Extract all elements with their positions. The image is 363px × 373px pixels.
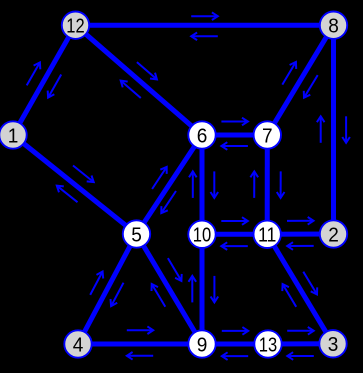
svg-text:1: 1 — [8, 124, 19, 147]
edge 13-3 — [268, 341, 333, 346]
arrow 12-&gt;1 — [48, 75, 62, 98]
edge 10-9 — [200, 234, 205, 344]
svg-text:8: 8 — [328, 15, 339, 38]
node 2 — [320, 220, 347, 247]
arrow 8-&gt;12 — [191, 33, 218, 41]
svg-text:4: 4 — [73, 333, 84, 356]
arrow 6-&gt;10 — [211, 171, 219, 198]
node 8 — [320, 12, 347, 39]
arrow 13-&gt;9 — [222, 352, 248, 360]
node 11 — [254, 221, 281, 248]
edge 9-13 — [202, 342, 268, 347]
arrow 2-&gt;8 — [317, 116, 325, 143]
edge 10-11 — [202, 232, 267, 237]
arrow 10-&gt;9 — [211, 276, 219, 303]
arrow 5-&gt;9 — [168, 258, 182, 281]
svg-text:5: 5 — [131, 223, 142, 246]
edge 7-11 — [265, 135, 270, 234]
node 4 — [64, 330, 91, 357]
edge 8-2 — [331, 25, 336, 234]
node 1 — [0, 121, 27, 148]
edge 1-5 — [13, 135, 137, 234]
edge 12-8 — [76, 23, 334, 28]
node 7 — [254, 121, 281, 148]
arrow 9-&gt;13 — [222, 327, 248, 335]
arrow 6-&gt;7 — [221, 118, 248, 126]
edge 12-1 — [13, 25, 76, 135]
arrow 6-&gt;5 — [161, 191, 176, 213]
arrow 5-&gt;1 — [57, 186, 78, 203]
edge 6-7 — [202, 133, 267, 138]
svg-text:12: 12 — [66, 15, 84, 38]
edge 5-9 — [137, 234, 203, 344]
svg-text:7: 7 — [262, 124, 273, 147]
svg-text:11: 11 — [258, 224, 276, 247]
node 12 — [62, 12, 89, 39]
node 13 — [254, 330, 281, 357]
edge 11-2 — [267, 232, 333, 237]
node 10 — [188, 221, 215, 248]
svg-text:10: 10 — [193, 224, 211, 247]
arrow 12-&gt;8 — [191, 12, 218, 20]
arrow 9-&gt;5 — [152, 284, 166, 307]
svg-text:3: 3 — [328, 333, 339, 356]
svg-text:9: 9 — [197, 333, 208, 356]
svg-text:13: 13 — [259, 333, 277, 356]
arrow 11-&gt;2 — [287, 217, 314, 225]
arrow 3-&gt;11 — [282, 284, 296, 307]
edge 12-6 — [76, 25, 203, 135]
arrow 2-&gt;11 — [287, 242, 314, 250]
svg-text:2: 2 — [328, 223, 339, 246]
arrow 10-&gt;11 — [221, 217, 248, 225]
node 5 — [123, 220, 150, 247]
arrow 9-&gt;10 — [189, 276, 197, 303]
arrow 11-&gt;3 — [303, 272, 317, 295]
arrow 7-&gt;8 — [282, 62, 296, 85]
arrow 7-&gt;11 — [277, 171, 285, 198]
edge 6-5 — [137, 135, 203, 234]
arrow 1-&gt;5 — [73, 166, 94, 183]
edge 5-4 — [78, 234, 137, 344]
arrow 11-&gt;7 — [250, 171, 258, 198]
arrow 4-&gt;9 — [127, 326, 153, 334]
node 6 — [188, 121, 215, 148]
arrow 8-&gt;2 — [342, 116, 350, 143]
edge 11-3 — [267, 234, 333, 343]
arrow 7-&gt;6 — [221, 142, 248, 150]
edge 4-9 — [78, 342, 202, 347]
arrow 10-&gt;6 — [189, 171, 197, 198]
arrow 4-&gt;5 — [90, 272, 103, 295]
arrow 9-&gt;4 — [127, 352, 153, 360]
arrow 6-&gt;12 — [121, 81, 141, 98]
node 3 — [319, 330, 346, 357]
arrow 5-&gt;4 — [111, 283, 124, 306]
edge 6-10 — [200, 135, 205, 234]
arrow 3-&gt;13 — [287, 352, 314, 360]
arrow 13-&gt;3 — [287, 327, 314, 335]
arrow 8-&gt;7 — [304, 75, 318, 98]
arrow 5-&gt;6 — [152, 167, 167, 189]
arrow 12-&gt;6 — [137, 62, 157, 79]
arrow 11-&gt;10 — [221, 242, 248, 250]
svg-text:6: 6 — [197, 124, 208, 147]
edge 8-7 — [267, 25, 333, 135]
node 9 — [188, 330, 215, 357]
arrow 1-&gt;12 — [27, 62, 41, 85]
